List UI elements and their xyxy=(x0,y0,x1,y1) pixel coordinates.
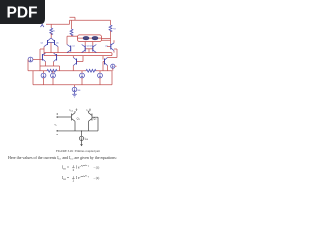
node input - terminal xyxy=(57,130,58,131)
current source I1 xyxy=(28,57,33,62)
svg-text:Q6: Q6 xyxy=(56,42,59,44)
resistor R4 horizontal xyxy=(47,69,57,72)
svg-text:Q1: Q1 xyxy=(72,45,74,47)
transistor Q3 current mirror left xyxy=(44,38,58,47)
current source I4 xyxy=(41,73,46,78)
wire: Q11 connections xyxy=(103,56,117,71)
wire: circle box to right column pair xyxy=(102,38,111,40)
svg-text:– (1): – (1) xyxy=(93,166,100,170)
wire: horizontal into circle box xyxy=(67,35,78,37)
wire: bottom box xyxy=(33,71,112,87)
wire: mirror emitters to bus xyxy=(40,43,58,71)
svg-text:PDF: PDF xyxy=(7,5,38,22)
resistor R1 xyxy=(50,28,53,35)
svg-text:I e: I e xyxy=(76,176,80,180)
current source IEE xyxy=(79,136,83,140)
transistor Q8b right of Q7 xyxy=(54,53,57,62)
resistor R3 xyxy=(109,25,112,32)
transistor Q2 xyxy=(82,45,86,53)
svg-text:IB2 =: IB2 = xyxy=(62,176,69,181)
highlight box around bus wire xyxy=(44,53,112,56)
svg-text:– (2): – (2) xyxy=(93,176,100,180)
transistor Q8 (circle style) xyxy=(83,37,89,40)
svg-text:I e: I e xyxy=(76,166,80,170)
wire: drop to current source xyxy=(81,131,83,136)
wire: drop to resistor R2 xyxy=(71,20,73,29)
resistor R5 horizontal xyxy=(86,69,96,72)
transistor Q11 right bottom xyxy=(105,58,108,66)
current source I6 xyxy=(80,73,85,78)
wire: left supply rail xyxy=(46,17,111,29)
wire: step notch xyxy=(70,17,76,24)
wire: stub between circles xyxy=(78,37,102,39)
transistor Q9 (circle style) xyxy=(92,37,98,40)
transistor Q4 xyxy=(93,45,97,53)
svg-text:FIGURE 3.49 : Emitter-coupled: FIGURE 3.49 : Emitter-coupled pair xyxy=(56,149,100,153)
svg-text:IB1 =: IB1 = xyxy=(62,166,69,171)
resistor R2 xyxy=(70,29,73,36)
node Vcc terminal arrow xyxy=(40,22,44,27)
current source I7 xyxy=(98,73,103,78)
current source IEE bottom center of schematic xyxy=(72,87,77,92)
junction dot xyxy=(81,130,82,131)
wire: base Q1 xyxy=(58,116,72,118)
transistor Q1 xyxy=(67,45,71,53)
wire: drops from circle box xyxy=(85,42,93,46)
wire: middle row connections xyxy=(67,36,93,52)
sign minus xyxy=(56,134,58,136)
wire: drop to resistor R1 xyxy=(50,24,52,28)
transistor Q1 xyxy=(72,111,76,131)
wire: top right rail xyxy=(70,19,111,21)
wire: bottom rail 1 xyxy=(28,70,112,72)
highlight box around current-mirror circles xyxy=(78,35,102,42)
node input + terminal xyxy=(57,116,58,117)
transistor bars emphasis xyxy=(42,40,110,65)
arrow Ic2 xyxy=(89,109,90,111)
svg-text:R1: R1 xyxy=(53,31,55,33)
transistor Q7 left xyxy=(42,53,45,62)
transistor Q10 xyxy=(73,58,76,66)
current source I3 right xyxy=(111,64,115,68)
svg-text:Q5: Q5 xyxy=(40,42,43,44)
wire: below source xyxy=(81,141,83,145)
wire: bottom rail with Q2 base riser xyxy=(58,117,98,131)
equation 1 xyxy=(62,164,99,172)
svg-text:Here the values of the current: Here the values of the currents IC1 and … xyxy=(8,155,117,161)
wire: left branch xyxy=(28,53,60,71)
ground xyxy=(72,92,77,97)
arrow Ic1 xyxy=(76,109,77,111)
equation 2 xyxy=(62,175,99,183)
sign plus xyxy=(56,113,58,115)
current source I5 xyxy=(51,73,56,78)
wire: resistor tails xyxy=(51,31,110,44)
svg-text:R3: R3 xyxy=(113,29,115,31)
svg-text:Q3: Q3 xyxy=(89,45,91,47)
transistor Q2 xyxy=(89,111,93,131)
wire: drop to resistor R3 xyxy=(110,20,112,25)
transistor Q5 right column top xyxy=(111,43,114,51)
wire: Q10 stubs xyxy=(73,56,83,71)
page background xyxy=(0,0,149,198)
ground arrow xyxy=(80,144,83,146)
wire: right column loop xyxy=(107,40,117,57)
